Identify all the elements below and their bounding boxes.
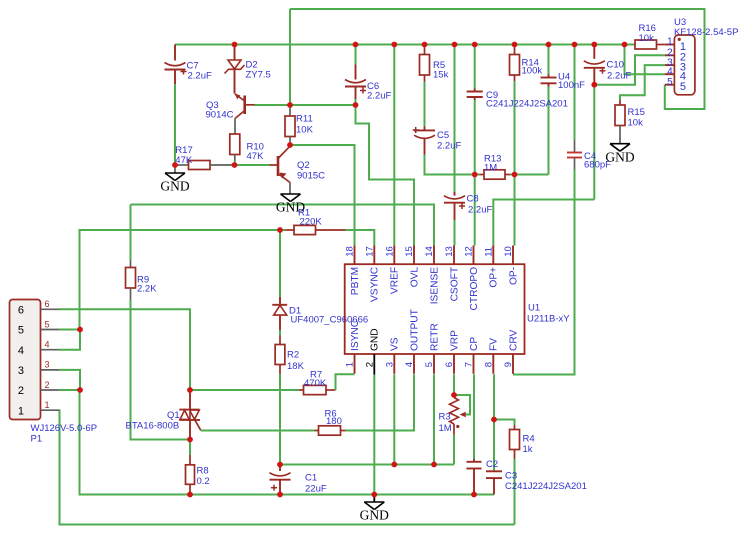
svg-text:C8: C8 [467,194,479,205]
resistor R15 [619,100,621,105]
wire Q3 base to C6 [255,104,356,106]
svg-text:9015C: 9015C [297,171,325,182]
pin U1.8 FV [492,354,494,374]
pin P1.5 [41,329,60,331]
transistor Q2 [277,156,280,176]
resistor R17 [175,164,189,166]
resistor R16 [625,44,636,46]
svg-text:18K: 18K [287,361,305,372]
svg-text:5: 5 [680,81,686,93]
svg-text:100k: 100k [522,66,543,77]
wire bus to C8 [454,45,456,193]
resistor R9 [130,205,132,261]
wire P1 pin1 to bottom rail [59,410,515,524]
svg-text:VRP: VRP [449,330,460,351]
svg-text:6: 6 [444,362,455,367]
svg-text:2.2uF: 2.2uF [468,205,492,216]
wire R7 to U1 pin1 [336,374,355,390]
svg-text:100nF: 100nF [558,80,585,91]
resistor R13 [480,174,485,176]
svg-text:9: 9 [503,362,514,367]
pin P1.1 [41,409,60,411]
svg-text:VSYNC: VSYNC [370,267,381,302]
svg-text:13: 13 [444,246,455,257]
wire pin11 horizontal [493,200,594,246]
svg-text:5: 5 [424,362,435,367]
svg-text:9014C: 9014C [206,110,234,121]
resistor R7 [299,389,304,391]
wire Q1 gate to R6 [201,430,315,432]
junction (190,439.5) [187,437,193,443]
svg-text:C3: C3 [505,471,517,482]
svg-text:4: 4 [404,362,415,367]
resistor R4 [514,425,516,430]
wire U3 pin3 to R15 [620,65,665,100]
junction bus x=355.5 [353,42,359,48]
junction (594.3,84.7) [591,82,597,88]
svg-text:47K: 47K [247,151,265,162]
svg-text:Q1: Q1 [167,410,180,421]
svg-text:R11: R11 [296,114,313,125]
pin U1.16 VREF [393,246,395,265]
wire P1 pins2-3 to bottom rail [80,390,495,495]
svg-text:10: 10 [503,246,514,257]
wire C7 to GND node [174,84,176,165]
connector U3 [674,35,695,95]
svg-text:R3: R3 [439,412,451,423]
wire U1 pin2 GND [373,354,375,375]
junction (374.3,494.5) [371,492,377,498]
svg-text:1: 1 [667,37,673,48]
wire R9 to Q1 MT1 node [131,300,191,440]
svg-text:ZY7.5: ZY7.5 [246,70,271,81]
pin U1.1 ISYNC [354,354,356,374]
svg-text:4: 4 [667,66,673,77]
wire R4 to bottom rail [514,459,516,525]
svg-text:ISENSE: ISENSE [429,267,440,305]
resistor R6 [315,430,319,432]
svg-text:4: 4 [18,345,24,357]
wire R14 to U1 pin10 [514,81,516,246]
svg-text:WJ126V-5.0-6P: WJ126V-5.0-6P [31,423,98,434]
resistor R5 [424,45,426,48]
svg-text:GND: GND [160,179,189,194]
pin U1.10 OP- [512,246,514,265]
wire C4 to U1 pin9 [513,170,575,375]
triac Q1 BTA16-800B [189,390,191,410]
wire R13 to U4/R14 node [510,174,549,176]
capacitor U4 [548,45,550,75]
pin U1.4 OUTPUT [413,354,415,374]
svg-text:180: 180 [326,416,342,427]
junction (190,494.5) [187,492,193,498]
pin U1.13 CSOFT [453,246,455,265]
wire Q2 base [235,164,270,166]
svg-text:ISYNC: ISYNC [350,320,361,351]
svg-text:CRV: CRV [508,329,519,351]
pin U1.17 VSYNC [373,246,375,265]
junction (434,464.5) [431,462,437,468]
capacitor C7 [174,45,176,61]
wire pin14 horizontal [131,205,435,246]
junction bus x=514.5 [512,42,518,48]
ground GND2 [281,193,301,195]
capacitor C9 [474,89,476,92]
wire C10 to U3 pin2 [594,55,665,84]
pin U3.2 [665,54,675,56]
svg-text:2.2uF: 2.2uF [367,91,391,102]
wire C8 to U1 pin13 [454,220,456,246]
resistor R11 [289,105,291,109]
wire bus to C4 [574,45,576,140]
svg-text:C10: C10 [607,60,624,71]
capacitor C4 [574,140,576,153]
svg-text:12: 12 [464,246,475,257]
svg-text:3: 3 [45,360,50,370]
svg-text:R4: R4 [523,434,535,445]
svg-text:4: 4 [45,340,50,350]
svg-text:16: 16 [385,246,396,257]
ground GND3 [619,126,621,144]
svg-text:11: 11 [484,247,495,257]
wire bus to C9 [474,45,476,89]
pin U1.18 PBTM [354,246,356,265]
capacitor C6 [355,45,357,65]
junction bus x=454.5 [452,42,458,48]
junction bus x=474.7 [472,42,478,48]
svg-text:1M: 1M [484,163,497,174]
svg-text:GND: GND [370,328,381,351]
svg-text:2.2K: 2.2K [137,284,157,295]
svg-text:R15: R15 [628,107,645,118]
svg-text:OUTPUT: OUTPUT [409,309,420,351]
capacitor C8 [454,192,456,196]
resistor R8 [189,455,191,465]
junction bus x=594.3 [591,42,597,48]
wire C5 to R13 net [425,155,480,175]
junction (290,105) [287,102,293,108]
resistor R14 [514,45,516,48]
wire pin8 to R4 [494,420,515,426]
svg-text:17: 17 [365,246,376,257]
junction (280,494.5) [277,492,283,498]
resistor R1 [286,229,295,231]
pin P1.6 [41,308,60,310]
junction (290,145) [287,142,293,148]
junction (514.5,174.5) [512,172,518,178]
svg-text:18: 18 [345,246,356,257]
svg-text:C1: C1 [305,473,317,484]
junction bus x=394.3 [391,42,397,48]
svg-text:OP+: OP+ [489,267,500,288]
capacitor C2 [473,459,475,462]
junction (80,390) [77,387,83,393]
svg-text:5: 5 [667,77,673,88]
wire P1 pin6 to Q1 [59,309,190,390]
svg-text:0.2: 0.2 [197,476,210,487]
wire U1 pin8 FV down [493,374,495,471]
wire R6 to U1 pin4 [346,374,415,430]
pin U3.4 [665,73,675,75]
svg-text:47K: 47K [175,155,193,166]
svg-text:10k: 10k [639,33,655,44]
svg-text:1: 1 [45,400,50,410]
svg-text:C2: C2 [486,459,498,470]
junction bus x=574.5 [572,42,578,48]
svg-text:2.2uF: 2.2uF [437,141,461,152]
junction (355.5,105) [353,102,359,108]
svg-text:GND: GND [360,508,389,523]
wire U1 pin6 VRP down [453,374,455,395]
wire Q3 collector stub [234,119,236,135]
pin U3.1 [665,44,675,46]
svg-text:BTA16-800B: BTA16-800B [126,421,180,432]
diode D2 zener [234,45,236,60]
pin U1.6 VRP [453,354,455,374]
junction bus x=624.5 [622,42,628,48]
svg-text:220K: 220K [300,217,323,228]
wire top loop to U3 pin5 [290,9,705,109]
wire P1 pin2 [59,389,80,391]
svg-text:VREF: VREF [390,267,401,294]
svg-text:FV: FV [489,338,500,351]
junction bus x=234.5 [232,42,238,48]
ground GND1 [174,165,176,173]
capacitor C5 [424,127,426,131]
svg-text:10K: 10K [296,125,314,136]
capacitor C1 [279,465,281,472]
svg-text:GND: GND [605,149,634,164]
wire C9 to U1 pin12 [474,100,476,246]
svg-text:OVL: OVL [409,267,420,288]
junction (80,329.5) [77,327,83,333]
pin P1.3 [41,369,60,371]
svg-text:8: 8 [484,362,495,367]
op-amp U1 body U211B-xY [345,264,525,354]
pin U3.3 [665,64,675,66]
svg-text:14: 14 [424,246,435,257]
svg-text:15k: 15k [433,70,449,81]
svg-text:KF128-2.54-5P: KF128-2.54-5P [674,27,738,38]
svg-text:U1: U1 [528,303,540,314]
svg-text:1: 1 [18,405,24,417]
pin U1.5 RETR [433,354,435,374]
pin U1.3 VS [393,354,395,374]
wire U1 pin7 CP down [473,374,475,459]
svg-text:C5: C5 [437,130,449,141]
wire RETR/VS bottom net [280,464,454,466]
diode D1 [279,297,281,305]
junction (190,390) [187,387,193,393]
svg-text:2.2uF: 2.2uF [188,71,212,82]
wire R1 node to D1 [279,230,281,297]
connector P1 WJ126V-5.0-6P [10,300,41,420]
svg-text:6: 6 [18,305,24,317]
junction (474,494.5) [471,492,477,498]
junction bus x=548.5 [546,42,552,48]
wire C10 to pin11 net [593,85,595,200]
svg-text:2: 2 [45,380,50,390]
pin P1.4 [41,349,60,351]
resistor R2 [279,336,281,345]
wire D1 to R2 [279,330,281,336]
wire bus to U1 pin16 [393,45,395,246]
capacitor C3 [493,470,495,472]
junction (175,165) [172,162,178,168]
svg-text:10k: 10k [628,118,644,129]
wire P1 pins4-5 to R1 [80,230,286,330]
svg-text:Q2: Q2 [297,160,310,171]
junction (234.5,165) [232,162,238,168]
svg-text:RETR: RETR [429,323,440,351]
junction (280,230) [277,227,283,233]
wire U1 pin5 RETR down [433,374,435,464]
wire Q1 to R8 [189,440,191,456]
resistor R10 [230,134,240,155]
pin U1.15 OVL [413,246,415,265]
svg-text:3: 3 [385,362,396,367]
svg-text:CSOFT: CSOFT [449,267,460,302]
wire R3 bottom [453,435,455,465]
svg-text:15: 15 [404,246,415,257]
wire P1 pin4 [59,330,80,350]
svg-text:1M: 1M [439,423,452,434]
wire Q1 node to R7 [190,389,299,391]
svg-text:3: 3 [18,365,24,377]
svg-text:OP-: OP- [508,267,519,285]
wire P1 pin5 [59,329,80,331]
junction bus x=424.5 [422,42,428,48]
svg-text:2: 2 [18,385,24,397]
wire U1 pin3 VS down [393,374,395,464]
wire VCC bus [175,44,635,46]
junction (474.7,174.5) [472,172,478,178]
pin U3.5 [665,84,675,86]
ground GND4 [373,495,375,503]
svg-text:22uF: 22uF [305,484,327,495]
junction (494,419.5) [491,417,497,423]
svg-text:P1: P1 [31,434,43,445]
svg-text:C241J224J2SA201: C241J224J2SA201 [486,99,568,110]
potentiometer R3 [453,395,455,398]
wire U4 to R13 net [548,87,550,175]
svg-text:6: 6 [45,299,50,309]
svg-text:2.2uF: 2.2uF [607,71,631,82]
pin U1.7 CP [473,354,475,374]
capacitor C10 [593,45,595,59]
wire R2 to bottom net [279,374,281,465]
svg-text:5: 5 [45,319,50,329]
svg-text:VS: VS [390,337,401,351]
wire P1 pin3 [59,370,80,390]
wire R5 to C5 [424,82,426,127]
transistor Q3 [243,96,246,115]
svg-text:CTROPO: CTROPO [469,267,480,311]
svg-text:R2: R2 [287,350,299,361]
pin U1.14 ISENSE [433,246,435,265]
pin U1.9 CRV [512,354,514,374]
svg-text:C241J224J2SA201: C241J224J2SA201 [505,481,587,492]
junction (454,395) [451,392,457,398]
wire R1 to U1 pin17 [346,230,375,246]
svg-text:470K: 470K [304,378,327,389]
wire C6 to U1 pin15 [356,105,415,246]
wire bus tap to U3 pin4 [625,45,665,75]
svg-text:5: 5 [18,325,24,337]
svg-text:CP: CP [469,337,480,351]
junction (394.3,464.5) [391,462,397,468]
svg-text:7: 7 [464,362,475,367]
wire node to U1 pin18 [290,145,355,246]
pin P1.2 [41,389,60,391]
svg-text:U211B-xY: U211B-xY [527,314,570,325]
wire vertical x290 top to Q3 base [289,9,291,105]
svg-text:R8: R8 [197,466,209,477]
svg-text:PBTM: PBTM [350,267,361,295]
svg-text:1: 1 [345,362,356,367]
pin U1.11 OP+ [492,246,494,265]
pin U1.12 CTROPO [473,246,475,265]
wire Q2 collector to ground [289,183,291,194]
svg-text:1k: 1k [523,444,533,455]
junction (280,464.5) [277,462,283,468]
